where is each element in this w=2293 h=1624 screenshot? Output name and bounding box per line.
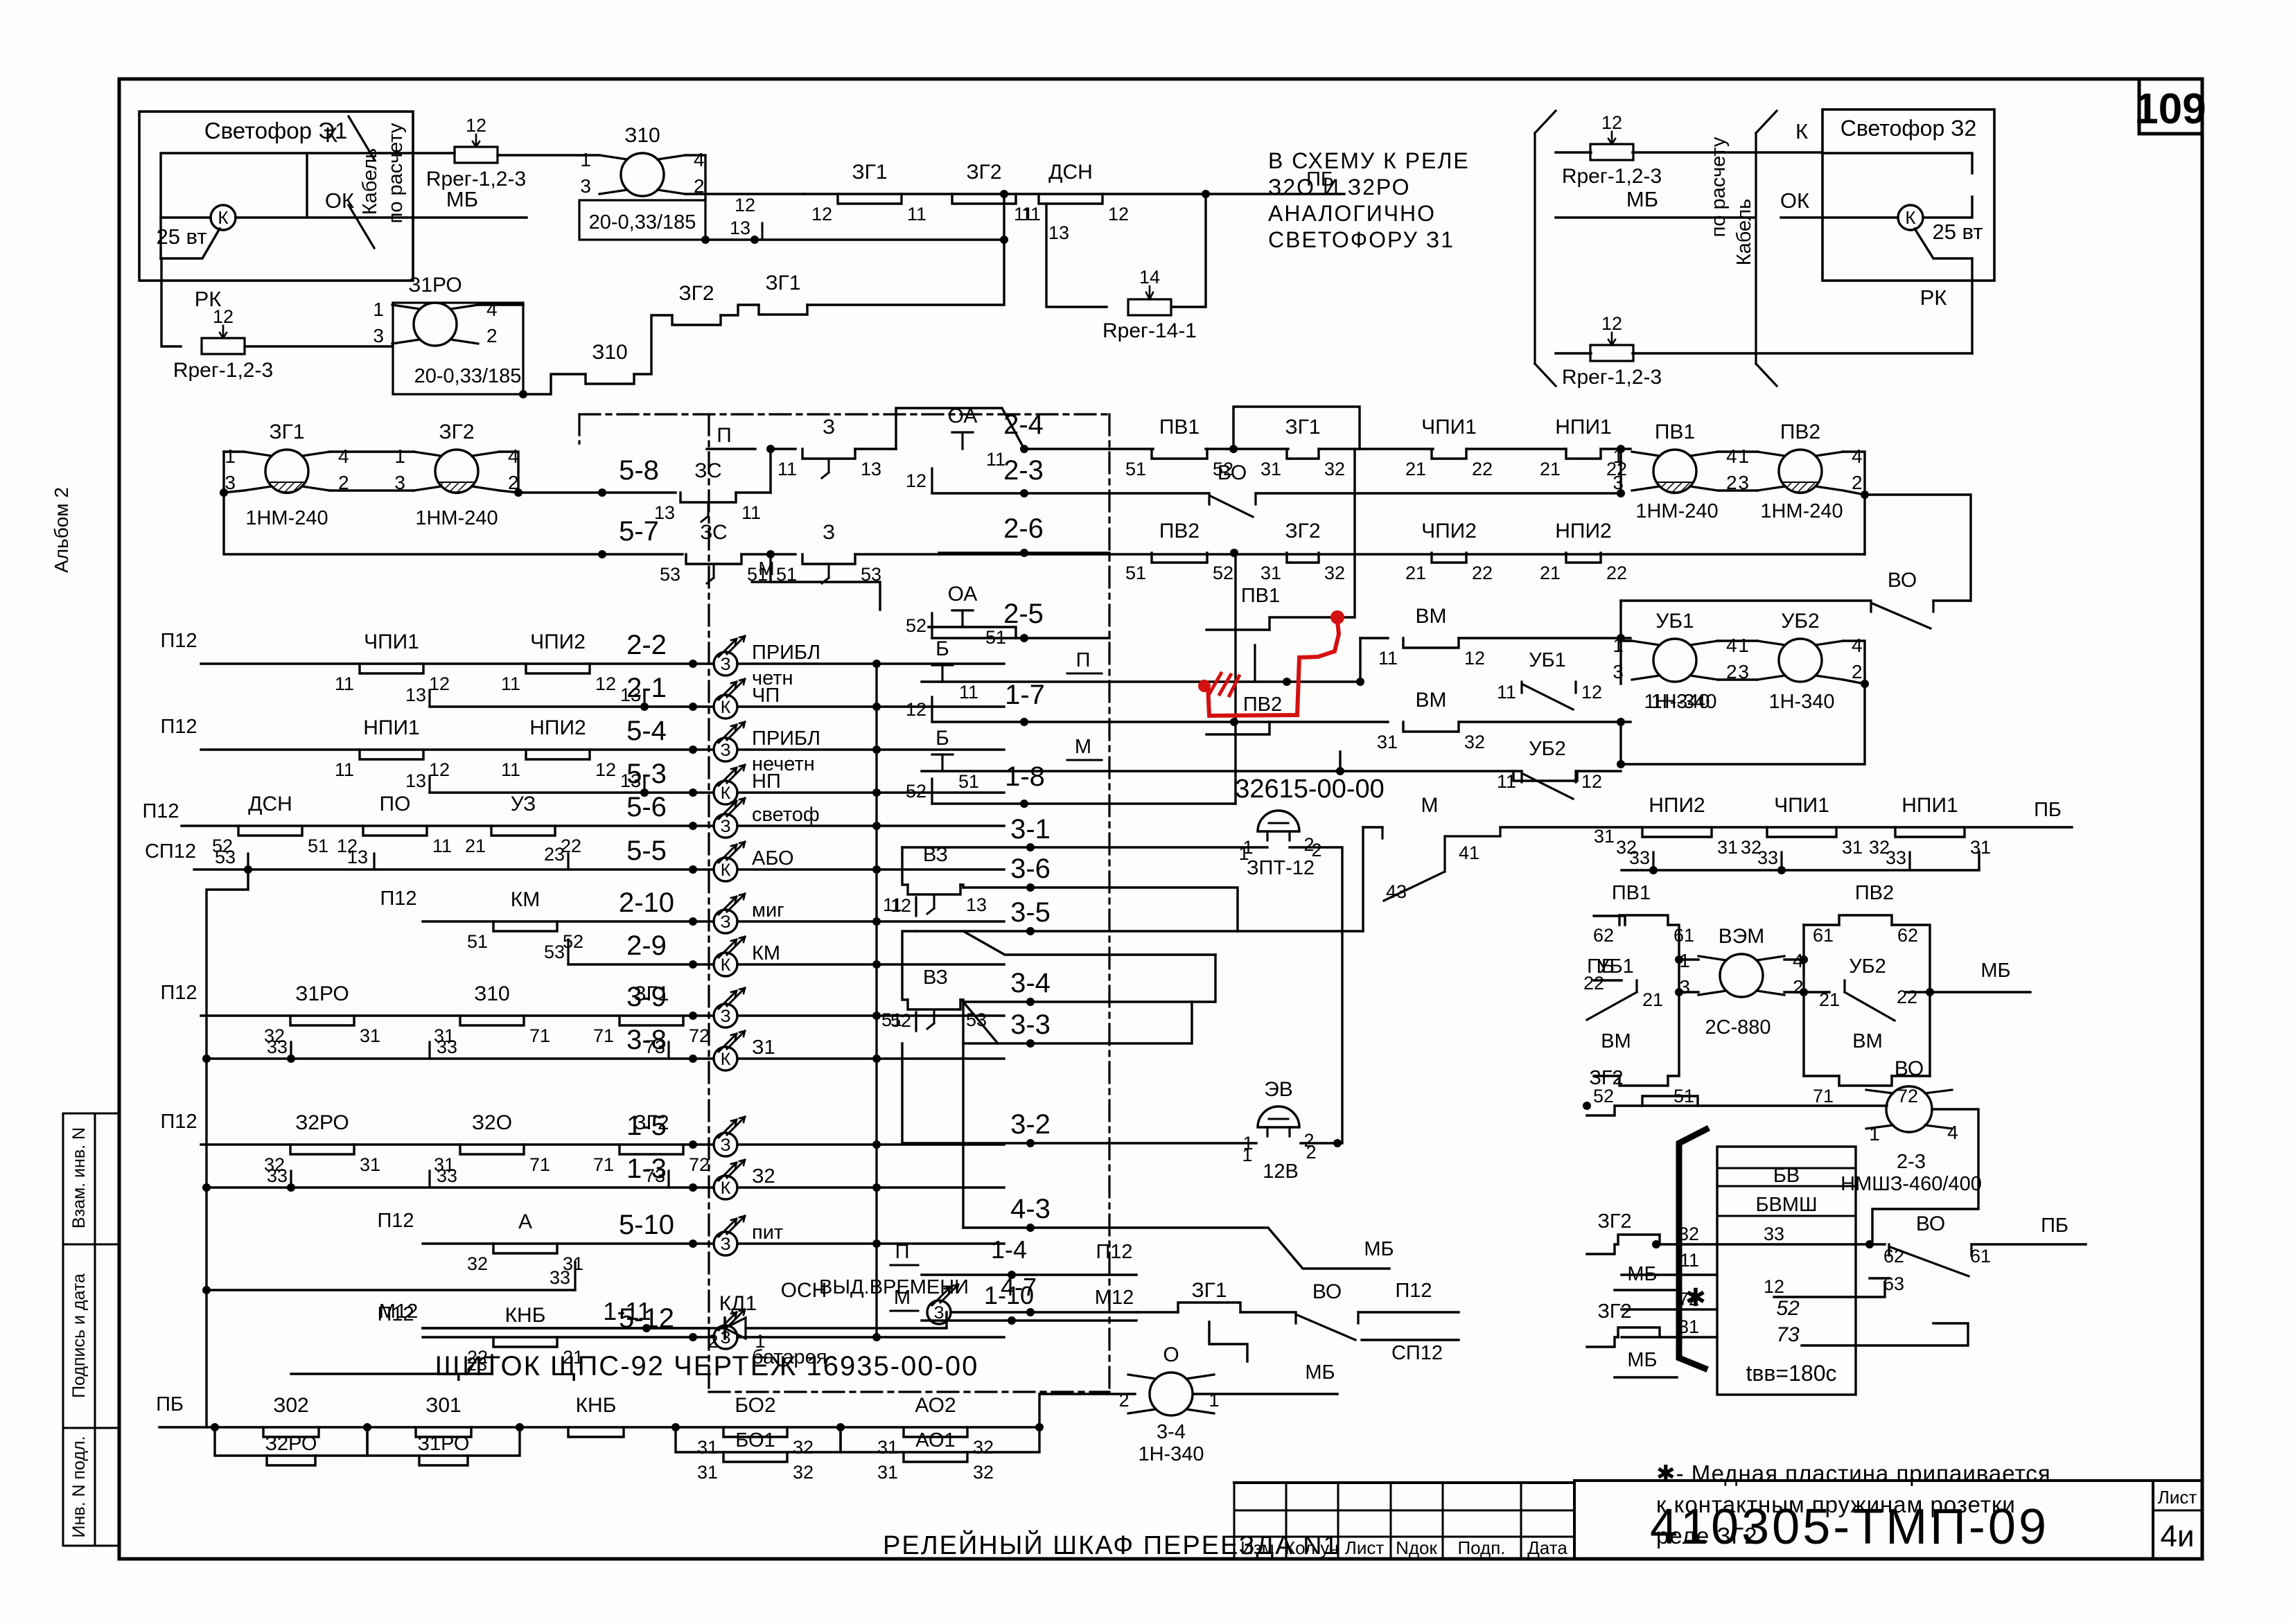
O value 3-4 bbox=[1157, 1421, 1186, 1443]
svg-text:32: 32 bbox=[1324, 459, 1345, 479]
wire row 2-10 right bbox=[737, 920, 1004, 922]
O value 1N-340 bbox=[1138, 1443, 1204, 1465]
wire riser 1937 low bbox=[1341, 930, 1343, 932]
wire left drop to 5-7 bbox=[224, 493, 602, 554]
svg-text:З2О И З2РО: З2О И З2РО bbox=[1268, 175, 1410, 200]
VO value 2-3 bbox=[1897, 1151, 1926, 1173]
row label 5-12 bbox=[619, 1303, 674, 1334]
title block revision table bbox=[1234, 1483, 1574, 1559]
svg-text:Альбом 2: Альбом 2 bbox=[51, 487, 72, 573]
svg-text:ЗГ1: ЗГ1 bbox=[269, 421, 304, 443]
pin 12 bv bbox=[1764, 1276, 1784, 1297]
annotation to relays Z2O bbox=[1268, 148, 1470, 252]
junction 33b bbox=[1777, 866, 1786, 874]
svg-text:2-1: 2-1 bbox=[626, 673, 667, 703]
svg-text:ЧПИ1: ЧПИ1 bbox=[364, 630, 419, 653]
wire vz1 up bbox=[902, 847, 908, 885]
svg-text:ПРИБЛ: ПРИБЛ bbox=[752, 727, 820, 750]
junction bottom4 bbox=[671, 1423, 680, 1431]
bell pin1 bbox=[1238, 843, 1249, 864]
svg-text:12: 12 bbox=[466, 115, 486, 136]
wire row M12 bbox=[423, 1327, 708, 1329]
label ZG2 vo bbox=[1589, 1067, 1623, 1089]
junction VEM br bbox=[1800, 988, 1808, 996]
wire PV2 stub bbox=[1206, 722, 1270, 734]
contact НПИ2 bbox=[1616, 794, 1738, 858]
svg-text:Инв. N подл.: Инв. N подл. bbox=[69, 1436, 89, 1538]
signal head box Svetofor E2 bbox=[1822, 109, 1994, 281]
junction K row DSN bbox=[1000, 190, 1008, 198]
tick 12 row 2-3 bbox=[906, 468, 932, 493]
svg-text:ЗГ2: ЗГ2 bbox=[439, 421, 474, 443]
svg-text:ЗГ1: ЗГ1 bbox=[1285, 416, 1320, 439]
wire Z10 pin2 row 12 bbox=[685, 193, 804, 195]
svg-text:11: 11 bbox=[432, 836, 452, 856]
svg-text:ПБ: ПБ bbox=[156, 1393, 184, 1415]
contact ЧПИ2 bbox=[501, 630, 616, 694]
svg-text:62: 62 bbox=[1897, 925, 1918, 946]
contact VZ1 bbox=[883, 885, 987, 915]
svg-text:2С-880: 2С-880 bbox=[1705, 1016, 1771, 1039]
svg-text:ВО: ВО bbox=[1916, 1212, 1945, 1235]
VO pin 4 bbox=[1947, 1122, 1958, 1143]
svg-text:М: М bbox=[758, 558, 774, 579]
page number box 109 bbox=[2134, 79, 2206, 134]
bell EV pin1 bbox=[1242, 1145, 1252, 1165]
wire row 1042 right bbox=[1459, 721, 1631, 723]
wire bottom chain bbox=[159, 1394, 1135, 1427]
junction row 3-9 bbox=[689, 1012, 697, 1020]
indicator lamp 5-4 ПРИБЛ bbox=[714, 722, 745, 761]
svg-text:43: 43 bbox=[1386, 881, 1407, 902]
svg-text:АНАЛОГИЧНО: АНАЛОГИЧНО bbox=[1268, 201, 1436, 226]
svg-text:12В: 12В bbox=[1263, 1160, 1299, 1183]
label RK right bbox=[1920, 285, 1947, 310]
wire E2 RK below box bbox=[1971, 281, 1973, 353]
svg-text:З: З bbox=[720, 741, 730, 760]
wire row 1890 bbox=[1622, 1308, 1717, 1310]
svg-text:21: 21 bbox=[1540, 563, 1561, 583]
cable labels E2 bbox=[1707, 136, 1755, 265]
svg-text:МБ: МБ bbox=[1364, 1238, 1394, 1260]
label M12 1-10 bbox=[1095, 1287, 1134, 1309]
svg-text:1: 1 bbox=[394, 445, 405, 467]
label ZG2 bv1 bbox=[1597, 1210, 1631, 1233]
wire box1 right bbox=[1668, 925, 1679, 1076]
svg-text:Rрег-1,2-3: Rрег-1,2-3 bbox=[173, 359, 273, 382]
row label 1-8 bbox=[1005, 761, 1045, 792]
contact UB2c bbox=[1513, 771, 1577, 781]
wire OK lamp row bbox=[161, 216, 211, 218]
label RK bbox=[195, 287, 222, 311]
button ОА bbox=[948, 405, 978, 449]
album label bbox=[51, 487, 72, 573]
tick 53 r8 bbox=[544, 939, 568, 964]
wire box1 left mid bbox=[1594, 979, 1622, 981]
label P underline bbox=[707, 448, 755, 450]
contact ЧПИ1 bbox=[335, 630, 450, 694]
wire row 798 left bbox=[939, 551, 1109, 554]
margin box Inv N podl bbox=[63, 1428, 119, 1546]
svg-text:ПВ2: ПВ2 bbox=[1855, 882, 1894, 904]
svg-text:20-0,33/185: 20-0,33/185 bbox=[589, 211, 696, 233]
wire PV bridge bottom bbox=[1718, 489, 1757, 491]
svg-text:5-6: 5-6 bbox=[626, 792, 667, 822]
contact ЗС bbox=[654, 459, 761, 523]
switch UB2 21-22 bbox=[1819, 980, 1917, 1021]
svg-text:1-11: 1-11 bbox=[603, 1297, 651, 1325]
label UB1 mid bbox=[1529, 649, 1566, 671]
svg-text:К: К bbox=[721, 955, 731, 975]
svg-text:НПИ1: НПИ1 bbox=[363, 716, 419, 739]
junction UB bottom bbox=[1617, 718, 1625, 726]
lamp name АБО bbox=[752, 847, 794, 870]
wire 2-4 to panel edge bbox=[1024, 448, 1109, 450]
svg-text:3-9: 3-9 bbox=[626, 982, 667, 1012]
svg-text:3-6: 3-6 bbox=[1010, 854, 1051, 884]
svg-text:32: 32 bbox=[1464, 732, 1485, 752]
label VZ1 bbox=[923, 844, 948, 866]
lamp K E2 bbox=[1898, 205, 1983, 244]
wire row 2-5 bbox=[932, 637, 1109, 639]
svg-text:1: 1 bbox=[755, 1331, 765, 1352]
relay Z10 value box bbox=[579, 200, 705, 240]
svg-text:П12: П12 bbox=[160, 716, 197, 738]
svg-text:К: К bbox=[1795, 119, 1808, 143]
svg-text:РЕЛЕЙНЫЙ ШКАФ ПЕРЕЕЗДА N1: РЕЛЕЙНЫЙ ШКАФ ПЕРЕЕЗДА N1 bbox=[883, 1529, 1339, 1560]
resistor R3 bbox=[1562, 112, 1662, 188]
contact A01 bbox=[877, 1452, 994, 1483]
svg-text:ВО: ВО bbox=[1312, 1280, 1342, 1303]
contact ЗГ1 bbox=[1260, 416, 1345, 479]
svg-text:12: 12 bbox=[429, 759, 450, 780]
svg-text:ЗГ2: ЗГ2 bbox=[1285, 520, 1320, 542]
label ZG2 bv2 bbox=[1597, 1300, 1631, 1323]
cable break marks bbox=[346, 116, 407, 248]
wire jog up1 bbox=[634, 315, 672, 374]
wire 648 c2 bbox=[1206, 448, 1288, 450]
wire zg2 bv1 bbox=[1587, 1244, 1618, 1254]
row label 1-3 bbox=[626, 1154, 667, 1184]
svg-text:71: 71 bbox=[593, 1154, 614, 1175]
contact ЧПИ1 bbox=[1405, 416, 1493, 479]
svg-text:З1РО: З1РО bbox=[295, 982, 349, 1005]
wire 3-2 left up bbox=[901, 1043, 903, 1143]
junction bus row 3-8 bbox=[872, 1054, 881, 1063]
svg-text:52: 52 bbox=[906, 781, 926, 802]
tick 52 row 1-8 bbox=[906, 779, 932, 804]
svg-text:ЩИТОК ЩПС-92 ЧЕРТЕЖ 16935-00-0: ЩИТОК ЩПС-92 ЧЕРТЕЖ 16935-00-00 bbox=[435, 1351, 979, 1382]
contact Z1ROb bbox=[419, 1456, 468, 1465]
wire PV out right bbox=[1865, 495, 1971, 601]
junction VEM tr bbox=[1800, 955, 1808, 964]
junction bus row 5-3 bbox=[872, 788, 881, 797]
row label 4-7 bbox=[1001, 1273, 1037, 1301]
resistor R2 bbox=[173, 306, 273, 382]
svg-text:П: П bbox=[895, 1241, 910, 1263]
svg-text:21: 21 bbox=[563, 1347, 583, 1368]
pin 73 bv italic bbox=[1776, 1323, 1800, 1346]
svg-text:51: 51 bbox=[958, 771, 979, 792]
button ОА bbox=[948, 583, 978, 627]
junction ZG2e dot bbox=[1652, 1240, 1660, 1248]
wire 3-5 diag bbox=[963, 931, 1215, 955]
svg-text:ЗГ2: ЗГ2 bbox=[678, 282, 714, 305]
svg-text:12: 12 bbox=[1108, 204, 1129, 224]
wire row 2-2 left bbox=[201, 662, 714, 664]
lamp name пит bbox=[752, 1221, 783, 1244]
junction row 1-3 bbox=[689, 1183, 697, 1192]
wire jog to bus bbox=[807, 194, 1004, 305]
title block drawing number bbox=[1574, 1481, 2153, 1559]
terminal M12 bbox=[379, 1300, 418, 1323]
svg-text:31: 31 bbox=[697, 1462, 718, 1483]
svg-text:МБ: МБ bbox=[1627, 1263, 1657, 1285]
label M underline bbox=[752, 581, 787, 583]
pin 52 bv italic bbox=[1776, 1297, 1800, 1320]
wire row 2-9 right bbox=[737, 963, 1004, 965]
svg-text:2: 2 bbox=[1311, 840, 1321, 860]
terminal P12 r1 bbox=[160, 630, 197, 652]
svg-text:ЗГ1: ЗГ1 bbox=[765, 272, 800, 294]
label OK bbox=[325, 188, 354, 213]
junction 5-7 M bbox=[766, 550, 775, 558]
wire VEM right bot bbox=[1784, 991, 1804, 993]
svg-text:2: 2 bbox=[1852, 472, 1863, 493]
svg-text:1: 1 bbox=[580, 149, 591, 170]
contact А bbox=[467, 1210, 583, 1274]
wire E2 RK diagonal bbox=[1915, 229, 1972, 258]
wire Z1RO pin4 out bbox=[478, 303, 523, 306]
junction 1-7 bus bbox=[1230, 718, 1238, 726]
svg-text:71: 71 bbox=[529, 1025, 550, 1046]
wire ZG pair left bracket bbox=[224, 450, 244, 452]
wire box2 bottom bbox=[1804, 1075, 1839, 1077]
wire row 1872 bbox=[1774, 1282, 1885, 1297]
svg-text:32: 32 bbox=[973, 1437, 994, 1458]
junction row 5-5 bbox=[689, 865, 697, 874]
contact НПИ2 bbox=[1540, 520, 1627, 583]
VEM value bbox=[1705, 1016, 1771, 1039]
wire row 2-10 left bbox=[423, 920, 714, 922]
svg-text:З1: З1 bbox=[752, 1036, 775, 1059]
svg-text:53: 53 bbox=[660, 564, 680, 585]
svg-text:71: 71 bbox=[529, 1154, 550, 1175]
junction 1-8 bbox=[1020, 800, 1028, 808]
wire vz2 right bbox=[960, 1000, 963, 1016]
wire row 3-9 left bbox=[201, 1014, 714, 1016]
svg-text:ДСН: ДСН bbox=[248, 793, 292, 815]
junction P row2 bbox=[1356, 678, 1364, 686]
junction bus row 2-9 bbox=[872, 960, 881, 969]
junction 3-1 bbox=[1026, 843, 1035, 851]
svg-text:51: 51 bbox=[1125, 563, 1146, 583]
junction P bbox=[766, 445, 775, 453]
svg-text:33: 33 bbox=[437, 1036, 457, 1057]
svg-text:22: 22 bbox=[1606, 563, 1627, 583]
svg-text:61: 61 bbox=[1970, 1246, 1991, 1266]
svg-text:П12: П12 bbox=[380, 888, 416, 910]
row label 5-3 bbox=[626, 759, 667, 789]
junction UB top bbox=[1617, 634, 1625, 642]
svg-text:П12: П12 bbox=[160, 982, 197, 1004]
svg-text:21: 21 bbox=[1405, 563, 1426, 583]
svg-text:1: 1 bbox=[225, 445, 236, 467]
junction 3-5 bbox=[1026, 927, 1035, 935]
copper plate mark (thick) bbox=[1679, 1129, 1706, 1368]
svg-text:13: 13 bbox=[1048, 222, 1069, 243]
contact ЗГ2 bbox=[593, 1111, 710, 1175]
pin 13 DSN bbox=[1048, 222, 1069, 243]
wire row 1840 bbox=[1622, 1273, 1717, 1276]
svg-text:КНБ: КНБ bbox=[576, 1394, 617, 1417]
svg-text:1Н-340: 1Н-340 bbox=[1644, 691, 1710, 713]
svg-text:13: 13 bbox=[405, 685, 426, 705]
tick 13 r2b bbox=[620, 685, 644, 707]
svg-text:СП12: СП12 bbox=[1391, 1342, 1443, 1364]
svg-text:31: 31 bbox=[1260, 459, 1281, 479]
svg-text:52: 52 bbox=[1213, 563, 1233, 583]
wire box2 mid bbox=[1804, 991, 1829, 993]
svg-text:21: 21 bbox=[1642, 989, 1663, 1010]
svg-text:31: 31 bbox=[360, 1154, 380, 1175]
svg-text:20-0,33/185: 20-0,33/185 bbox=[414, 365, 522, 387]
svg-text:Светофор З2: Светофор З2 bbox=[1840, 116, 1977, 141]
contact З bbox=[776, 521, 881, 585]
svg-text:Лист: Лист bbox=[1345, 1537, 1385, 1558]
svg-text:5-5: 5-5 bbox=[626, 836, 667, 866]
svg-text:П: П bbox=[717, 424, 732, 447]
wire OK lamp to box edge bbox=[236, 216, 413, 218]
wire 4-7 after ZG1 bbox=[1240, 1311, 1296, 1313]
contact ДСН bbox=[212, 793, 328, 856]
junction UB loop left bbox=[1617, 760, 1625, 768]
svg-text:НПИ1: НПИ1 bbox=[1555, 416, 1611, 439]
row label 1-5 bbox=[626, 1111, 667, 1141]
row label 3-3 bbox=[1010, 1009, 1051, 1040]
title block sheet box bbox=[2153, 1481, 2202, 1559]
svg-text:К: К bbox=[721, 1050, 731, 1069]
junction bus row 5-10 bbox=[872, 1239, 881, 1248]
wire box2 mid right bbox=[1906, 991, 1930, 993]
svg-text:73: 73 bbox=[1776, 1323, 1800, 1346]
svg-text:ОА: ОА bbox=[948, 583, 978, 606]
svg-text:52: 52 bbox=[906, 615, 926, 636]
wire row 3-5 bbox=[916, 930, 1363, 932]
svg-text:Rрег-1,2-3: Rрег-1,2-3 bbox=[1562, 165, 1662, 188]
wire PV bracket left bbox=[1619, 449, 1622, 493]
wire bus 1781 bbox=[1234, 553, 1236, 804]
junction M UB2 bbox=[1336, 767, 1344, 775]
svg-text:ЧПИ2: ЧПИ2 bbox=[530, 630, 586, 653]
junction row 1-3 bus bbox=[202, 1183, 211, 1192]
wire M12 to diode bbox=[423, 1327, 725, 1329]
label UB2 box bbox=[1849, 955, 1886, 978]
terminal P12 r14 bbox=[377, 1303, 414, 1325]
svg-text:11: 11 bbox=[959, 682, 978, 703]
svg-text:КНБ: КНБ bbox=[505, 1304, 546, 1327]
svg-text:З10: З10 bbox=[474, 982, 510, 1005]
ticks 33 pb bbox=[1629, 847, 1910, 870]
svg-text:32615-00-00: 32615-00-00 bbox=[1235, 775, 1385, 804]
svg-text:ПО: ПО bbox=[380, 793, 411, 815]
svg-text:5-8: 5-8 bbox=[619, 455, 659, 486]
svg-text:2-6: 2-6 bbox=[1003, 513, 1044, 544]
wire PV right bracket bbox=[1843, 452, 1865, 495]
relay PV1 bbox=[1613, 421, 1737, 493]
label VM box1 bbox=[1601, 1030, 1631, 1052]
svg-text:О: О bbox=[1163, 1343, 1179, 1366]
label MB vem bbox=[1980, 960, 2010, 982]
wire 2-4 hump bbox=[896, 408, 1024, 449]
switching contact ВО bbox=[1209, 461, 1256, 517]
junction 33a bbox=[1649, 866, 1658, 874]
wire row 2-2 right bbox=[737, 662, 1004, 664]
row label 5-10 bbox=[619, 1210, 674, 1240]
svg-text:З: З bbox=[823, 416, 835, 439]
svg-text:5-7: 5-7 bbox=[619, 516, 659, 547]
junction row 5-6 bbox=[689, 822, 697, 830]
wire ZG1 hump right bbox=[1233, 407, 1360, 449]
svg-text:ПВ1: ПВ1 bbox=[1612, 882, 1651, 904]
svg-text:4: 4 bbox=[338, 445, 349, 467]
junction row 2-1 bbox=[689, 703, 697, 711]
svg-text:ЗГ1: ЗГ1 bbox=[1191, 1279, 1227, 1302]
wire ZG bridge top bbox=[330, 450, 414, 452]
svg-text:ПВ2: ПВ2 bbox=[1780, 421, 1820, 443]
wire row 1-3 right bbox=[737, 1186, 1004, 1188]
wire row 5-5 left bbox=[194, 868, 714, 870]
wire inner right edge bbox=[306, 153, 308, 218]
label MB 4-3 bbox=[1364, 1238, 1394, 1260]
contact PV2b bbox=[1813, 915, 1918, 946]
row label 2-5 bbox=[1003, 599, 1044, 629]
label M mid bbox=[1075, 736, 1091, 758]
junction bus row 5-4 bbox=[872, 745, 881, 754]
svg-text:З1РО: З1РО bbox=[418, 1433, 470, 1455]
svg-text:ВЫД.ВРЕМЕНИ: ВЫД.ВРЕМЕНИ bbox=[819, 1276, 969, 1298]
svg-text:11: 11 bbox=[501, 673, 520, 694]
junction 3-3 bbox=[1026, 1039, 1035, 1048]
svg-text:1: 1 bbox=[1238, 843, 1249, 864]
contact З2РО bbox=[264, 1111, 380, 1175]
svg-text:22: 22 bbox=[1472, 459, 1493, 479]
wire mb stub bv2 bbox=[1615, 1376, 1677, 1378]
svg-text:12: 12 bbox=[906, 470, 926, 491]
svg-text:МБ: МБ bbox=[1627, 1349, 1657, 1371]
label M small bbox=[758, 558, 774, 579]
pin 53 sp12 bbox=[215, 847, 236, 867]
svg-text:12: 12 bbox=[1581, 771, 1602, 792]
svg-text:УБ2: УБ2 bbox=[1781, 610, 1819, 633]
svg-text:31: 31 bbox=[1717, 837, 1738, 858]
row label 4-3 bbox=[1010, 1194, 1051, 1224]
wire row 1-3 bbox=[207, 1186, 714, 1188]
wire riser 1967 bbox=[1362, 827, 1364, 931]
relay ZG2 bbox=[394, 421, 518, 493]
junction 2-3 bbox=[1020, 489, 1028, 497]
wire UB bracket stub1 bbox=[1621, 639, 1631, 642]
svg-text:3: 3 bbox=[1613, 661, 1624, 682]
svg-text:к контактным пружинам розетки: к контактным пружинам розетки bbox=[1656, 1492, 2016, 1517]
svg-text:З10: З10 bbox=[592, 341, 628, 364]
svg-text:ВМ: ВМ bbox=[1601, 1030, 1631, 1052]
wire VEM right top bbox=[1784, 958, 1804, 960]
svg-text:З1РО: З1РО bbox=[408, 274, 462, 297]
svg-text:72: 72 bbox=[689, 1025, 710, 1046]
svg-text:3: 3 bbox=[580, 175, 591, 197]
svg-text:1: 1 bbox=[1869, 1123, 1880, 1145]
